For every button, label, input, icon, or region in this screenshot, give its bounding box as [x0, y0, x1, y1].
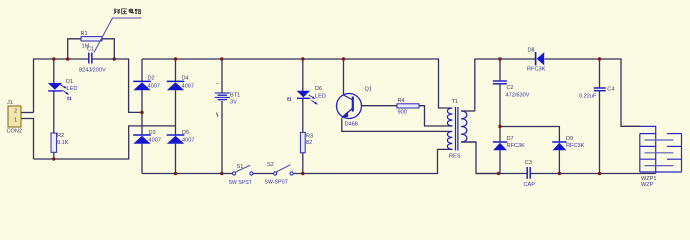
- wire battery vertical: [221, 59, 223, 174]
- LED D6: [288, 86, 326, 105]
- resistor R1: [81, 31, 103, 50]
- wire bridge right vertical: [175, 59, 177, 174]
- junction Q1 collector rail: [342, 57, 345, 60]
- junction D5 bottom rail: [174, 172, 177, 175]
- svg-text:4007: 4007: [149, 137, 161, 143]
- wire R4 to transformer: [419, 106, 453, 126]
- wire Q1 collector: [343, 59, 345, 95]
- callout leader line: [94, 18, 142, 53]
- wire link C2 to D9: [500, 127, 559, 143]
- wire J1 pin1 lead: [21, 119, 34, 160]
- wire transformer secondary bottom: [461, 142, 498, 174]
- svg-text:CAP: CAP: [524, 182, 536, 188]
- junction R3 bottom rail: [301, 172, 304, 175]
- wire bottom middle rail: [142, 149, 453, 173]
- switch S1: [229, 164, 253, 186]
- svg-text:BT1: BT1: [230, 93, 240, 99]
- svg-text:D468: D468: [345, 122, 358, 128]
- junction BT1 top rail: [220, 57, 223, 60]
- capacitor C3: [524, 160, 536, 188]
- wire Q1 emitter to transformer: [342, 119, 452, 132]
- svg-text:C1: C1: [87, 47, 94, 53]
- wire top rail right segment: [475, 59, 641, 126]
- diode D9: [552, 136, 584, 150]
- resistor R2: [51, 133, 69, 152]
- wire D1 chain: [53, 59, 55, 159]
- svg-text:R1: R1: [81, 31, 88, 37]
- svg-text:Q1: Q1: [365, 87, 372, 93]
- svg-text:R4: R4: [398, 98, 405, 104]
- diode D7: [493, 136, 525, 150]
- svg-text:824J/200V: 824J/200V: [79, 68, 106, 74]
- svg-text:S1: S1: [237, 164, 244, 170]
- svg-text:R3: R3: [306, 134, 313, 140]
- svg-text:−: −: [216, 81, 219, 87]
- resistor R3: [300, 132, 313, 152]
- svg-text:WZP: WZP: [641, 182, 654, 188]
- wire C2 D7 vertical: [499, 59, 501, 174]
- wire bridge left vertical: [141, 59, 143, 174]
- transformer T1: [447, 99, 476, 160]
- wire bottom right rail: [476, 173, 656, 175]
- svg-text:SW SPST: SW SPST: [229, 180, 253, 186]
- wire R1 bridge: [68, 39, 115, 59]
- svg-text:D7: D7: [507, 136, 514, 142]
- svg-text:4007: 4007: [182, 84, 194, 90]
- svg-text:900: 900: [398, 110, 407, 116]
- svg-text:S2: S2: [267, 162, 274, 168]
- svg-text:1: 1: [14, 118, 17, 124]
- svg-text:CON2: CON2: [7, 129, 23, 135]
- diode D5: [167, 130, 195, 144]
- junction R1 right leg: [113, 57, 116, 60]
- junction D7 bottom rail: [497, 172, 500, 175]
- diode D8: [527, 48, 546, 73]
- svg-text:3V: 3V: [230, 100, 237, 106]
- svg-text:2: 2: [14, 109, 17, 115]
- svg-text:RFC3K: RFC3K: [566, 143, 585, 149]
- svg-text:D1: D1: [66, 79, 73, 85]
- diode D2: [133, 76, 160, 91]
- wire C4 vertical: [599, 59, 601, 174]
- svg-text:D3: D3: [149, 130, 156, 136]
- connector J1: [7, 100, 23, 135]
- wire Q1 base to R4: [361, 105, 397, 107]
- wire D6 R3 chain: [302, 59, 304, 174]
- piezo WZP1: [640, 126, 682, 188]
- wire top rail left segment: [34, 59, 143, 113]
- svg-text:0.22uF: 0.22uF: [579, 94, 597, 100]
- svg-text:D4: D4: [182, 76, 189, 82]
- capacitor C2: [493, 81, 530, 99]
- svg-text:4007: 4007: [182, 137, 194, 143]
- junction D1 top rail: [52, 57, 55, 60]
- junction bridge AC1 node: [140, 111, 143, 114]
- transistor Q1: [337, 87, 372, 128]
- svg-text:SW-SPST: SW-SPST: [265, 180, 289, 186]
- junction D6 top rail: [301, 57, 304, 60]
- svg-text:LED: LED: [67, 86, 78, 92]
- wire bottom-left rail: [34, 126, 176, 159]
- resistor R4: [397, 98, 419, 116]
- svg-text:D2: D2: [148, 76, 155, 82]
- diode D3: [133, 130, 161, 144]
- diode D4: [167, 76, 194, 91]
- svg-text:RES: RES: [449, 154, 461, 160]
- svg-text:RFC3K: RFC3K: [527, 67, 546, 73]
- junction C2 top rail: [498, 57, 501, 60]
- junction BT1 bottom rail: [220, 172, 223, 175]
- svg-text:472/630V: 472/630V: [506, 93, 530, 99]
- junction C4 top rail: [598, 57, 601, 60]
- battery BT1: [215, 81, 240, 116]
- junction C2 D7 link node: [498, 125, 501, 128]
- svg-text:82: 82: [306, 140, 312, 146]
- wire top rail bridge segment: [142, 59, 451, 108]
- capacitor C4: [579, 86, 614, 99]
- switch S2: [265, 162, 294, 186]
- svg-text:9.1K: 9.1K: [57, 140, 69, 146]
- svg-text:D6: D6: [315, 86, 322, 92]
- svg-text:D5: D5: [182, 130, 189, 136]
- svg-text:4007: 4007: [148, 84, 160, 90]
- junction D9 bottom rail: [558, 172, 561, 175]
- svg-text:T1: T1: [452, 99, 459, 105]
- capacitor C1: [79, 47, 106, 74]
- svg-text:J1: J1: [7, 100, 13, 106]
- svg-text:C4: C4: [607, 86, 614, 92]
- svg-text:C3: C3: [525, 160, 532, 166]
- svg-text:R2: R2: [57, 133, 64, 139]
- callout text 降压电路 (drawn strokes): [115, 8, 141, 14]
- junction R1 left leg: [66, 57, 69, 60]
- svg-text:RFC3K: RFC3K: [507, 143, 526, 149]
- svg-text:D8: D8: [528, 48, 535, 54]
- svg-text:LED: LED: [315, 94, 326, 100]
- svg-text:C2: C2: [507, 85, 514, 91]
- junction R2 bottom: [52, 157, 55, 160]
- wire J1 pin2 lead: [21, 112, 34, 114]
- junction D4 top rail: [174, 57, 177, 60]
- wire D9 lower vertical: [558, 150, 560, 173]
- junction C4 bottom rail: [598, 172, 601, 175]
- svg-text:D9: D9: [566, 136, 573, 142]
- LED D1: [48, 79, 77, 100]
